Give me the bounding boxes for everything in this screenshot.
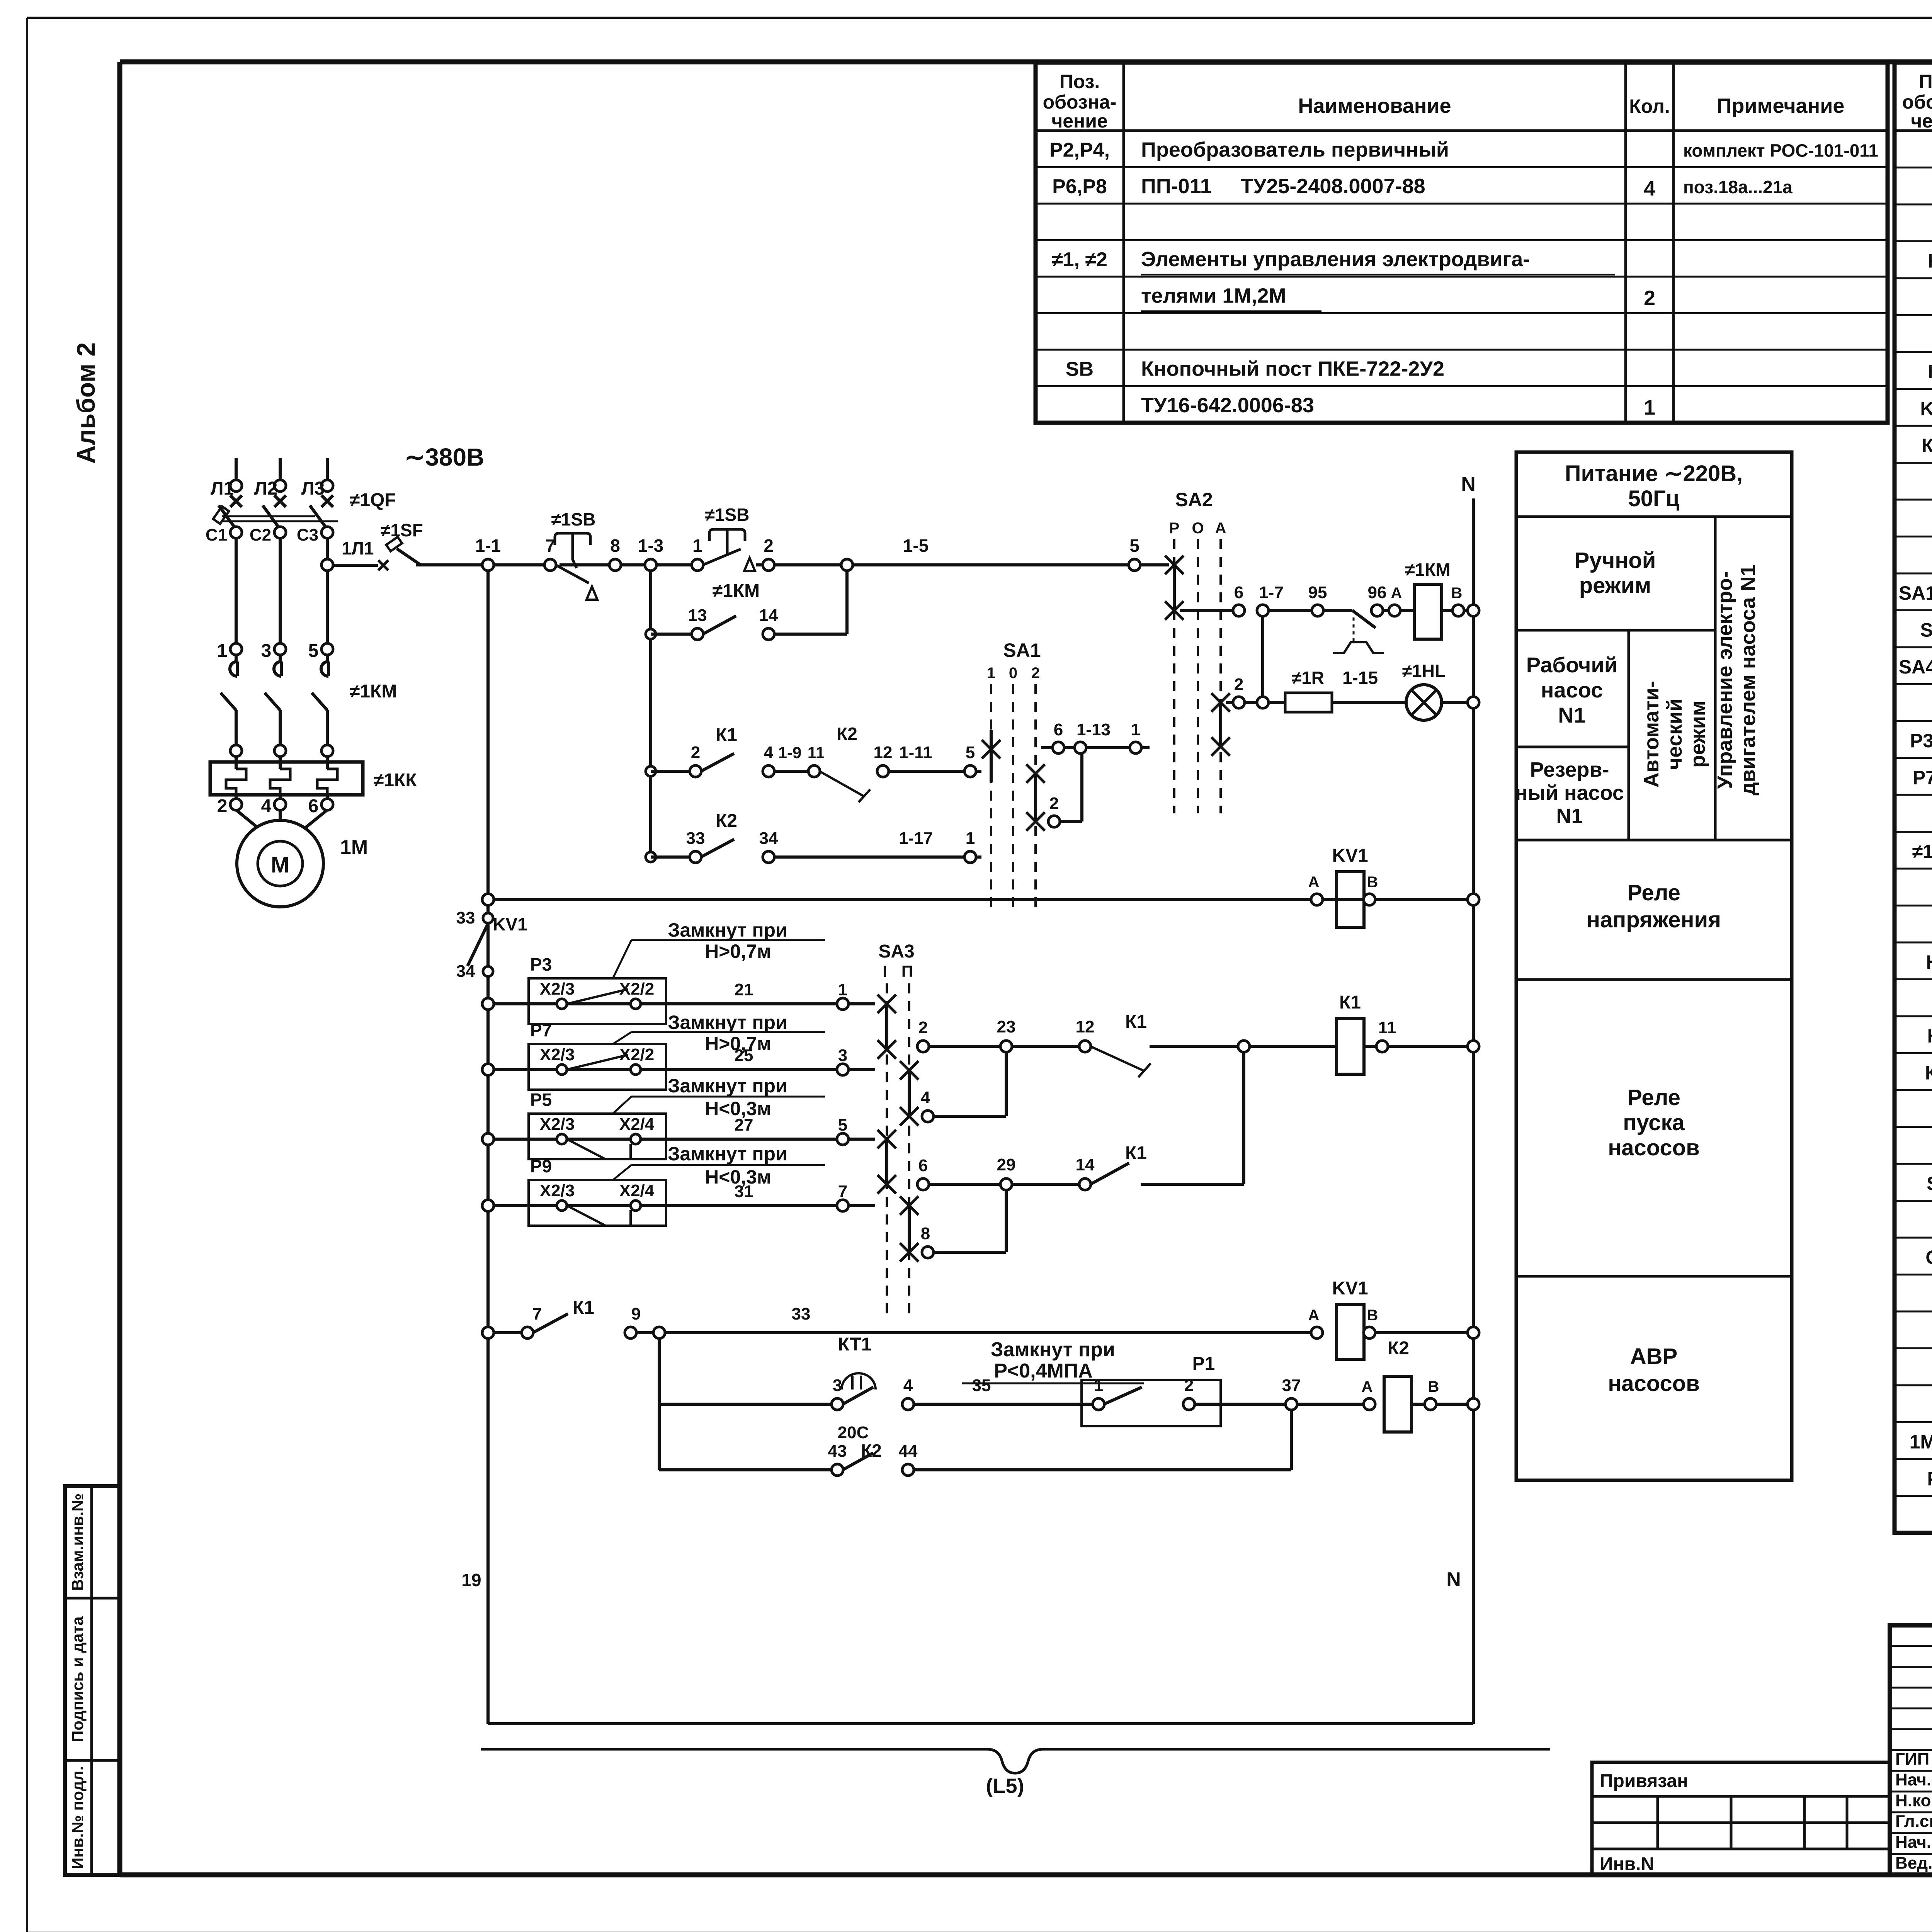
svg-text:2: 2 <box>918 1018 928 1037</box>
svg-text:Н<0,3м: Н<0,3м <box>705 1166 771 1188</box>
svg-text:1-3: 1-3 <box>638 536 663 556</box>
svg-text:В: В <box>1428 1378 1439 1395</box>
svg-text:QF: QF <box>1925 1247 1932 1268</box>
svg-text:(L5): (L5) <box>986 1774 1024 1798</box>
svg-text:Н>0,7м: Н>0,7м <box>705 1033 771 1054</box>
svg-text:KV1: KV1 <box>1332 1278 1368 1299</box>
left parts table <box>1036 63 1888 423</box>
phase input stubs L1 L2 L3 <box>235 458 238 480</box>
svg-text:N: N <box>1446 1568 1461 1591</box>
svg-text:8: 8 <box>610 536 620 556</box>
svg-text:Р2,Р4,: Р2,Р4, <box>1049 139 1110 161</box>
svg-text:1-11: 1-11 <box>899 743 932 762</box>
svg-text:37: 37 <box>1282 1376 1301 1395</box>
svg-text:К2: К2 <box>716 811 737 831</box>
svg-text:4: 4 <box>1644 177 1655 200</box>
svg-text:К2: К2 <box>1928 361 1932 383</box>
relay coil KV1 of AVR <box>1311 1327 1323 1338</box>
svg-text:∼380В: ∼380В <box>405 443 485 471</box>
svg-text:Привязан: Привязан <box>1600 1771 1688 1791</box>
svg-text:1-15: 1-15 <box>1342 668 1378 688</box>
svg-text:Вед.инж.: Вед.инж. <box>1895 1854 1932 1872</box>
row 2-23-12 K1 start circuit <box>917 1041 929 1052</box>
svg-text:Х2/3: Х2/3 <box>540 1181 575 1200</box>
svg-text:SA2: SA2 <box>1175 489 1213 510</box>
svg-text:Питание ∼220В,: Питание ∼220В, <box>1565 461 1743 486</box>
svg-text:≠1КМ: ≠1КМ <box>1405 560 1450 580</box>
svg-text:Х2/4: Х2/4 <box>619 1181 655 1200</box>
svg-text:2: 2 <box>691 743 700 762</box>
svg-text:33: 33 <box>792 1304 811 1323</box>
SA3 tap 8 <box>900 1196 918 1215</box>
svg-text:Кол.: Кол. <box>1629 95 1670 117</box>
legend: power supply cell <box>1516 515 1792 518</box>
svg-text:SB: SB <box>1066 358 1094 380</box>
svg-text:6: 6 <box>1054 720 1063 739</box>
svg-text:2: 2 <box>217 796 228 816</box>
svg-text:Преобразователь первичный: Преобразователь первичный <box>1141 138 1449 161</box>
svg-text:0: 0 <box>1009 665 1017 682</box>
probe Р5 row <box>482 1133 494 1145</box>
svg-text:Р: Р <box>1169 520 1180 537</box>
svg-text:5: 5 <box>838 1116 847 1134</box>
svg-text:1-1: 1-1 <box>475 536 501 556</box>
svg-text:Реле: Реле <box>1627 880 1680 905</box>
svg-text:насосов: насосов <box>1608 1371 1700 1396</box>
svg-text:насос: насос <box>1541 678 1603 702</box>
K2 seal row 43-44 <box>659 1468 832 1471</box>
motor terminals 2 4 6 <box>230 799 242 810</box>
svg-text:14: 14 <box>1076 1155 1095 1174</box>
node 2 <box>763 559 774 571</box>
svg-text:5: 5 <box>966 743 975 762</box>
svg-text:6: 6 <box>308 796 319 816</box>
svg-text:21: 21 <box>735 980 753 999</box>
svg-text:Р7: Р7 <box>530 1020 552 1040</box>
AVR row with K1 contact <box>482 1327 494 1338</box>
svg-text:6: 6 <box>1234 583 1243 602</box>
svg-text:2: 2 <box>1644 286 1655 310</box>
svg-text:≠1КМ: ≠1КМ <box>350 681 397 702</box>
legend: manual mode cell <box>1516 629 1715 632</box>
svg-text:7: 7 <box>532 1304 542 1323</box>
SA3 contact pair I rows5-6 <box>878 1130 896 1148</box>
svg-text:34: 34 <box>456 962 475 981</box>
K1 break contact <box>1090 1046 1151 1077</box>
contactor coil 1KM <box>1414 584 1442 639</box>
svg-text:Резерв-: Резерв- <box>1530 758 1609 781</box>
row 6-29-14 K1 make circuit <box>917 1179 929 1190</box>
svg-text:В: В <box>1367 874 1378 891</box>
schematic bottom brace L5 <box>481 1749 1550 1773</box>
svg-text:2: 2 <box>1234 675 1243 694</box>
motor 1M <box>236 810 269 837</box>
svg-text:2: 2 <box>1184 1376 1194 1395</box>
svg-text:О: О <box>1192 520 1204 537</box>
svg-text:23: 23 <box>997 1017 1016 1036</box>
svg-text:Х2/3: Х2/3 <box>540 980 575 998</box>
svg-text:N1: N1 <box>1558 703 1586 727</box>
SA3 tap 4 <box>900 1061 918 1080</box>
node 1-3 <box>645 559 656 571</box>
legend: pump start relay cell <box>1516 1275 1792 1278</box>
svg-text:5: 5 <box>308 641 319 661</box>
svg-text:SA4,SA5: SA4,SA5 <box>1899 656 1932 678</box>
svg-text:11: 11 <box>1378 1018 1396 1037</box>
svg-text:1: 1 <box>987 665 995 682</box>
svg-text:4: 4 <box>261 796 272 816</box>
wires to terminals 1 3 5 <box>235 538 238 644</box>
svg-text:≠1КМ: ≠1КМ <box>713 581 760 601</box>
svg-text:14: 14 <box>759 606 778 625</box>
svg-text:насосов: насосов <box>1608 1135 1700 1160</box>
svg-text:чение: чение <box>1051 110 1108 132</box>
svg-text:пуска: пуска <box>1623 1110 1685 1135</box>
SA1 contact line2 pair <box>1026 764 1045 783</box>
svg-text:HL: HL <box>1926 951 1932 973</box>
svg-text:А: А <box>1215 520 1226 537</box>
svg-text:20С: 20С <box>838 1423 869 1442</box>
svg-text:1: 1 <box>838 980 847 999</box>
svg-text:П: П <box>901 962 913 980</box>
svg-text:1-13: 1-13 <box>1077 720 1111 739</box>
svg-text:96: 96 <box>1368 583 1387 602</box>
svg-text:Наименование: Наименование <box>1298 94 1451 117</box>
svg-text:≠1КК: ≠1КК <box>374 770 417 791</box>
svg-text:Поз.: Поз. <box>1060 71 1100 92</box>
svg-text:ПП-011 ТУ25-2408.0007-88: ПП-011 ТУ25-2408.0007-88 <box>1141 175 1425 198</box>
svg-text:комплект РОС-101-011: комплект РОС-101-011 <box>1683 140 1878 160</box>
svg-text:1-9: 1-9 <box>778 743 802 762</box>
svg-text:А: А <box>1308 1307 1320 1324</box>
svg-text:1: 1 <box>217 641 228 661</box>
svg-text:Р3: Р3 <box>530 954 552 975</box>
manual row to 1KM coil <box>1180 609 1233 612</box>
svg-text:К1: К1 <box>716 725 737 745</box>
svg-text:К2: К2 <box>837 724 857 744</box>
svg-text:1М: 1М <box>340 836 368 859</box>
svg-text:телями 1М,2М: телями 1М,2М <box>1141 284 1286 307</box>
legend: working pump cell <box>1516 746 1629 748</box>
svg-text:95: 95 <box>1308 583 1327 602</box>
node 1 <box>692 559 703 571</box>
svg-text:N1: N1 <box>1556 804 1583 828</box>
svg-text:50Гц: 50Гц <box>1628 486 1679 511</box>
svg-text:К2: К2 <box>1388 1338 1409 1359</box>
svg-text:Ручной: Ручной <box>1575 548 1656 573</box>
svg-text:Р1: Р1 <box>1927 1468 1932 1490</box>
SA1 row 6 1-13 1 <box>1041 746 1053 749</box>
svg-text:Р9: Р9 <box>530 1156 552 1176</box>
svg-text:чение: чение <box>1911 110 1932 132</box>
svg-text:Замкнут при: Замкнут при <box>668 1143 787 1165</box>
svg-text:≠1HL: ≠1HL <box>1402 661 1446 681</box>
svg-text:1Л1: 1Л1 <box>342 538 374 558</box>
svg-text:SA3: SA3 <box>878 941 914 962</box>
svg-text:напряжения: напряжения <box>1587 907 1721 932</box>
svg-text:Инв.№ подл.: Инв.№ подл. <box>68 1766 87 1869</box>
junction to 1KM seal-in <box>841 559 853 571</box>
svg-text:Нач.гр.: Нач.гр. <box>1895 1833 1932 1852</box>
svg-text:12: 12 <box>1076 1017 1095 1036</box>
thermal contact 1KK in control <box>1323 609 1352 612</box>
start button 1SB <box>703 529 745 565</box>
stop button 1SB <box>555 533 590 583</box>
svg-text:1-7: 1-7 <box>1259 583 1284 602</box>
svg-text:43: 43 <box>828 1442 847 1461</box>
svg-text:5: 5 <box>1129 536 1139 556</box>
svg-text:≠1, ≠2: ≠1, ≠2 <box>1912 840 1932 862</box>
resistor 1R <box>1268 701 1285 704</box>
svg-text:К1: К1 <box>573 1298 594 1318</box>
SA2 contact row2 for lamp <box>1211 693 1230 712</box>
K2 break contact <box>820 771 870 802</box>
SA2 contact P row1 <box>1165 556 1184 574</box>
svg-text:13: 13 <box>688 606 707 625</box>
svg-text:режим: режим <box>1579 573 1651 598</box>
svg-text:Замкнут при: Замкнут при <box>668 919 787 941</box>
probe Р9 row <box>482 1200 494 1211</box>
switch 1SF <box>333 564 378 567</box>
svg-text:4: 4 <box>921 1088 930 1107</box>
svg-text:≠1, ≠2: ≠1, ≠2 <box>1052 248 1107 271</box>
K1 make contact <box>1090 1163 1129 1184</box>
svg-text:Замкнут при: Замкнут при <box>668 1075 787 1097</box>
svg-text:Замкнут при: Замкнут при <box>668 1012 787 1033</box>
svg-text:АВР: АВР <box>1630 1344 1677 1369</box>
svg-text:1-5: 1-5 <box>903 536 929 556</box>
relay coil KV1 voltage <box>1311 894 1323 905</box>
title block frame <box>1890 1625 1932 1875</box>
svg-text:6: 6 <box>918 1156 928 1175</box>
legend: voltage relay cell <box>1516 978 1792 981</box>
svg-text:1: 1 <box>1644 396 1655 419</box>
svg-text:KV1: KV1 <box>493 914 527 934</box>
svg-text:В: В <box>1451 585 1463 602</box>
svg-text:К1: К1 <box>1339 992 1361 1013</box>
legend: reserve pump cell <box>1516 839 1792 842</box>
svg-text:4: 4 <box>903 1376 913 1395</box>
svg-text:Поз.: Поз. <box>1919 71 1932 92</box>
svg-text:КТ1: КТ1 <box>838 1334 872 1355</box>
svg-text:Р6,Р8: Р6,Р8 <box>1052 175 1107 198</box>
svg-text:Р<0,4МПА: Р<0,4МПА <box>994 1360 1093 1382</box>
svg-text:Н<0,3м: Н<0,3м <box>705 1098 771 1119</box>
svg-text:Автомати-: Автомати- <box>1640 681 1663 787</box>
svg-text:KV1: KV1 <box>1920 398 1932 419</box>
svg-text:К1: К1 <box>1125 1012 1147 1032</box>
svg-text:Х2/3: Х2/3 <box>540 1045 575 1064</box>
thermal relay 1KK <box>210 762 363 795</box>
node 8 <box>609 559 621 571</box>
svg-text:1М,2М: 1М,2М <box>1910 1431 1932 1452</box>
svg-text:3: 3 <box>261 641 272 661</box>
svg-text:≠1SB: ≠1SB <box>551 509 596 529</box>
svg-text:2: 2 <box>1031 665 1040 682</box>
SA3 contact pair I rows1-2 <box>878 995 896 1013</box>
svg-text:SA1,SA2: SA1,SA2 <box>1899 582 1932 604</box>
wire 1-1 to 7 <box>493 563 545 566</box>
svg-text:Примечание: Примечание <box>1717 94 1845 117</box>
svg-text:35: 35 <box>972 1376 991 1395</box>
svg-text:ТУ16-642.0006-83: ТУ16-642.0006-83 <box>1141 394 1314 417</box>
svg-text:33: 33 <box>456 908 475 927</box>
svg-text:КК: КК <box>1927 1025 1932 1047</box>
contactor 1KM main contacts <box>221 693 236 710</box>
svg-text:≠1SF: ≠1SF <box>381 520 423 540</box>
svg-text:Инв.N: Инв.N <box>1600 1854 1654 1874</box>
svg-text:Взам.инв.№: Взам.инв.№ <box>68 1493 87 1591</box>
svg-text:I: I <box>883 962 887 980</box>
svg-text:КМ: КМ <box>1925 1062 1932 1083</box>
circuit breaker 1QF <box>230 495 242 507</box>
svg-text:К1: К1 <box>1928 250 1932 272</box>
svg-text:Альбом 2: Альбом 2 <box>71 342 100 464</box>
voltage relay top rail <box>486 570 490 1724</box>
svg-text:В: В <box>1367 1307 1378 1324</box>
probe Р7 row <box>482 1064 494 1075</box>
svg-text:Р5: Р5 <box>530 1090 552 1110</box>
svg-text:≠1R: ≠1R <box>1292 668 1324 688</box>
svg-text:1-17: 1-17 <box>899 829 933 848</box>
node 5 <box>1129 559 1140 571</box>
svg-text:1: 1 <box>1094 1376 1103 1395</box>
K1 seal contact row <box>646 766 656 776</box>
svg-text:КТ1: КТ1 <box>1922 435 1932 456</box>
bottom rail 19-N <box>488 1722 1473 1725</box>
svg-text:SF: SF <box>1927 1173 1932 1194</box>
svg-text:1: 1 <box>692 536 702 556</box>
svg-text:Н>0,7м: Н>0,7м <box>705 940 771 962</box>
svg-text:12: 12 <box>874 743 893 762</box>
svg-text:К1: К1 <box>1125 1143 1147 1163</box>
svg-text:К2: К2 <box>861 1440 882 1461</box>
svg-text:обозна-: обозна- <box>1902 91 1932 113</box>
svg-text:обозна-: обозна- <box>1043 91 1117 113</box>
svg-text:Гл.спец.: Гл.спец. <box>1895 1812 1932 1831</box>
svg-text:N: N <box>1461 473 1476 495</box>
svg-text:9: 9 <box>631 1304 641 1323</box>
svg-text:19: 19 <box>461 1570 481 1590</box>
K2 seal contact row <box>646 852 656 862</box>
svg-text:≠1SB: ≠1SB <box>705 505 750 525</box>
node 1-1 <box>482 559 494 571</box>
svg-text:Кнопочный пост ПКЕ-722-2У2: Кнопочный пост ПКЕ-722-2У2 <box>1141 357 1444 380</box>
svg-text:34: 34 <box>759 829 778 848</box>
time relay KT1 branch <box>658 1338 661 1470</box>
relay coil K1 <box>1337 1019 1364 1074</box>
wire to node 1-1 <box>416 563 483 566</box>
svg-text:А: А <box>1362 1378 1373 1395</box>
svg-text:двигателем насоса N1: двигателем насоса N1 <box>1736 565 1760 795</box>
svg-text:3: 3 <box>833 1376 842 1395</box>
svg-text:1: 1 <box>966 829 975 848</box>
svg-text:8: 8 <box>921 1224 930 1243</box>
svg-text:ческий: ческий <box>1663 699 1686 770</box>
svg-text:Н.контр.: Н.контр. <box>1895 1791 1932 1810</box>
svg-text:2: 2 <box>1049 794 1059 813</box>
svg-text:А: А <box>1308 874 1320 891</box>
svg-text:Подпись и дата: Подпись и дата <box>68 1616 87 1742</box>
svg-text:поз.18а...21а: поз.18а...21а <box>1683 177 1793 197</box>
control line tap from phase C3 <box>321 559 333 571</box>
svg-text:Элементы управления электродви: Элементы управления электродвига- <box>1141 248 1530 271</box>
svg-text:Р3,Р5,: Р3,Р5, <box>1910 730 1932 752</box>
svg-text:С2: С2 <box>250 526 271 544</box>
right parts table <box>1895 63 1932 1533</box>
relay coil K2 <box>1384 1376 1412 1432</box>
legend column frame <box>1516 452 1792 1480</box>
svg-text:М: М <box>271 852 289 878</box>
connector hooks <box>230 655 237 676</box>
svg-text:Замкнут при: Замкнут при <box>991 1338 1115 1361</box>
breaker output terminals C1 C2 C3 <box>230 527 242 538</box>
svg-text:Реле: Реле <box>1627 1085 1680 1110</box>
svg-text:33: 33 <box>686 829 705 848</box>
svg-text:Х2/4: Х2/4 <box>619 1115 655 1134</box>
svg-text:SA1: SA1 <box>1003 639 1041 661</box>
svg-text:режим: режим <box>1686 701 1709 768</box>
svg-text:Рабочий: Рабочий <box>1526 653 1618 677</box>
svg-text:Р7,Р9: Р7,Р9 <box>1913 767 1932 788</box>
svg-text:29: 29 <box>997 1155 1016 1174</box>
svg-text:KV1: KV1 <box>1332 845 1368 866</box>
1KM auxiliary contact row <box>649 570 652 857</box>
svg-text:2: 2 <box>764 536 774 556</box>
svg-text:С1: С1 <box>206 526 227 544</box>
svg-text:Нач.отд.: Нач.отд. <box>1895 1770 1932 1789</box>
svg-text:А: А <box>1391 585 1402 602</box>
svg-text:Х2/3: Х2/3 <box>540 1115 575 1134</box>
svg-text:Управление электро-: Управление электро- <box>1713 571 1736 789</box>
svg-text:3: 3 <box>838 1046 847 1065</box>
svg-text:1: 1 <box>1131 720 1140 739</box>
svg-text:44: 44 <box>899 1442 918 1461</box>
svg-text:7: 7 <box>838 1182 847 1201</box>
svg-text:11: 11 <box>808 743 825 762</box>
svg-text:ный насос: ный насос <box>1515 781 1624 804</box>
svg-text:ГИП: ГИП <box>1895 1750 1929 1769</box>
svg-text:SA3: SA3 <box>1920 619 1932 641</box>
SA1 moving contact line1 <box>982 740 1000 759</box>
signal lamp 1HL <box>1406 685 1442 720</box>
svg-text:Р1: Р1 <box>1192 1354 1215 1374</box>
probe Р3 row <box>482 998 494 1010</box>
svg-text:≠1QF: ≠1QF <box>350 490 396 510</box>
svg-text:С3: С3 <box>297 526 318 544</box>
sidebar stamp table <box>65 1486 120 1875</box>
KV1 self contact on rail <box>483 913 493 923</box>
svg-text:4: 4 <box>764 743 774 762</box>
title: left attachment boxes <box>1592 1762 1890 1875</box>
